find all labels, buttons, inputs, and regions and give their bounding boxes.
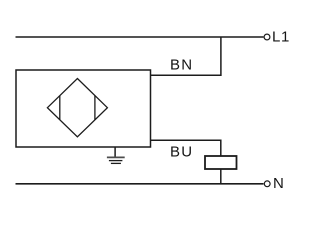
terminal L1 (264, 34, 270, 40)
svg-text:L1: L1 (272, 29, 290, 46)
terminal N (264, 181, 270, 187)
svg-text:BN: BN (170, 56, 193, 73)
wire BU (151, 140, 221, 156)
ground (107, 147, 125, 163)
wire N supply line (16, 183, 264, 185)
svg-text:BU: BU (170, 143, 193, 160)
wire L1 supply line (16, 36, 264, 38)
svg-text:N: N (273, 175, 284, 192)
wire load to N (220, 169, 222, 184)
proximity sensor diamond symbol (47, 79, 107, 137)
load resistor (205, 156, 237, 169)
proximity sensor B1 body (16, 70, 151, 147)
wire BN (151, 37, 221, 75)
